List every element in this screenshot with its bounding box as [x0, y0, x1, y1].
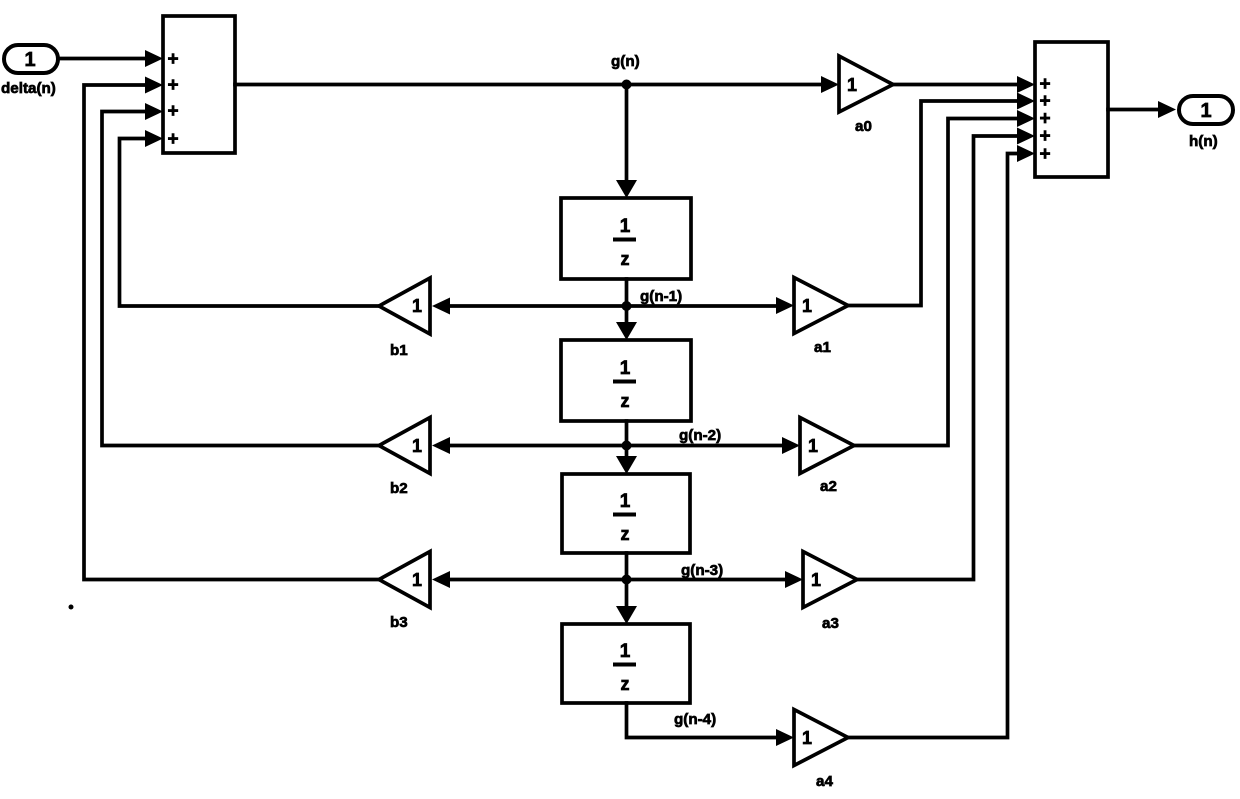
wire g(n-3) to gain b3 — [432, 571, 627, 588]
wire S2 output to output port — [1108, 101, 1176, 118]
sum block S1 — [163, 16, 235, 153]
wire g(n-2) to gain a2 — [627, 437, 801, 454]
svg-text:z: z — [621, 674, 630, 694]
wire g(n-1) to gain b1 — [432, 298, 627, 315]
svg-text:z: z — [621, 524, 630, 544]
wire g(n) down to delay Z1 — [616, 85, 637, 199]
svg-text:g(n-3): g(n-3) — [681, 562, 723, 579]
svg-text:g(n-2): g(n-2) — [679, 427, 721, 444]
svg-text:1: 1 — [847, 75, 857, 95]
gain a4 — [794, 710, 848, 766]
svg-text:1: 1 — [802, 296, 812, 316]
unit delay Z4 (1/z) — [562, 624, 690, 703]
svg-text:+: + — [167, 49, 178, 70]
svg-text:1: 1 — [811, 570, 821, 590]
wire Z1 output down through node g(n-1) to delay Z2 — [616, 279, 637, 340]
wire a0 output to S2 input 1 — [893, 76, 1035, 93]
gain b2 — [379, 418, 430, 474]
junction node g(n) — [622, 80, 632, 90]
wire a1 output to S2 input 2 — [848, 93, 1035, 306]
svg-text:g(n-1): g(n-1) — [640, 288, 682, 305]
svg-text:1: 1 — [620, 216, 631, 237]
svg-text:h(n): h(n) — [1189, 133, 1218, 150]
unit delay Z1 (1/z) — [561, 198, 691, 279]
svg-text:+: + — [167, 129, 178, 150]
gain a2 — [800, 418, 854, 474]
stray dot mark — [69, 605, 74, 610]
wire Z4 output (node g(n-4)) to gain a4 — [627, 703, 795, 746]
svg-text:1: 1 — [620, 491, 631, 512]
wire Z2 output down through node g(n-2) to delay Z3 — [616, 421, 637, 474]
wire Z3 output down through node g(n-3) to delay Z4 — [616, 553, 637, 624]
wire input port to sum S1 input 1 — [58, 50, 163, 67]
svg-text:+: + — [1039, 144, 1050, 165]
svg-text:1: 1 — [412, 436, 422, 456]
svg-text:g(n-4): g(n-4) — [674, 711, 716, 728]
gain b3 — [379, 552, 430, 608]
wire a4 output to S2 input 5 — [848, 145, 1035, 738]
junction node g(n-2) — [622, 441, 632, 451]
svg-text:1: 1 — [412, 570, 422, 590]
svg-text:a4: a4 — [816, 773, 833, 790]
svg-text:1: 1 — [808, 436, 818, 456]
svg-text:delta(n): delta(n) — [1, 80, 56, 97]
svg-text:1: 1 — [412, 296, 422, 316]
svg-text:1: 1 — [620, 358, 631, 379]
sum block S2 — [1035, 42, 1108, 177]
wire S1 output to gain a0 (node g(n)) — [235, 76, 839, 93]
wire b1 output to S1 input 4 — [120, 130, 380, 306]
output port 1 h(n) — [1179, 96, 1233, 124]
svg-text:a0: a0 — [855, 118, 872, 135]
gain a1 — [794, 278, 848, 334]
svg-text:+: + — [167, 101, 178, 122]
svg-text:1: 1 — [802, 728, 812, 748]
svg-text:a3: a3 — [822, 615, 839, 632]
svg-text:z: z — [621, 249, 630, 269]
wire g(n-1) to gain a1 — [627, 297, 795, 314]
wire g(n-2) to gain b2 — [432, 437, 627, 454]
wire b2 output to S1 input 3 — [102, 103, 379, 446]
svg-text:1: 1 — [620, 641, 631, 662]
svg-text:a1: a1 — [814, 339, 831, 356]
svg-text:1: 1 — [24, 49, 35, 71]
svg-text:g(n): g(n) — [611, 53, 640, 70]
wire b3 output to S1 input 2 — [84, 77, 379, 580]
gain a0 — [839, 56, 893, 112]
svg-text:z: z — [621, 391, 630, 411]
svg-text:b3: b3 — [390, 614, 408, 631]
unit delay Z3 (1/z) — [562, 474, 690, 553]
svg-text:b2: b2 — [390, 480, 408, 497]
unit delay Z2 (1/z) — [561, 340, 691, 421]
svg-text:+: + — [167, 75, 178, 96]
junction node g(n-1) — [622, 301, 632, 311]
svg-text:a2: a2 — [820, 478, 837, 495]
svg-text:b1: b1 — [390, 342, 408, 359]
wire a2 output to S2 input 3 — [854, 110, 1035, 446]
gain a3 — [803, 552, 857, 608]
wire g(n-3) to gain a3 — [627, 571, 804, 588]
wire a3 output to S2 input 4 — [857, 128, 1035, 580]
input port 1 delta(n) — [4, 45, 58, 73]
svg-text:1: 1 — [1200, 100, 1211, 122]
junction node g(n-3) — [622, 575, 632, 585]
gain b1 — [379, 278, 430, 334]
